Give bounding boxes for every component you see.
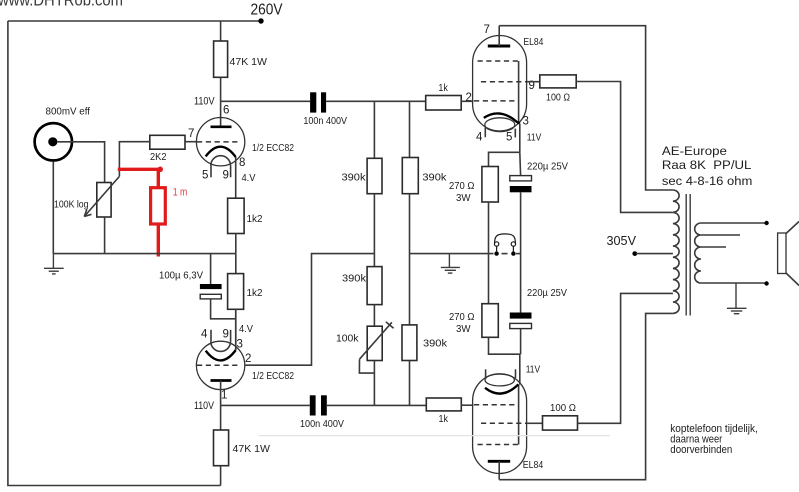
g3 dashes U3 <box>478 60 519 62</box>
svg-text:390k: 390k <box>342 273 367 285</box>
heater pin stubs U1 (pins 5,9) <box>210 166 212 178</box>
svg-text:4: 4 <box>201 329 208 341</box>
wire cap to 1k (bottom) <box>327 404 427 406</box>
g3 to cathode connector <box>518 61 520 123</box>
svg-text:9: 9 <box>223 170 229 182</box>
wire 100Ω to UL tap (top) <box>576 82 673 213</box>
resistor 270Ω 3W (top) <box>482 167 498 203</box>
resistor 390k (right top) <box>402 158 418 194</box>
wire ground bus to 1k2 lower <box>235 254 237 274</box>
wire U2 grid feedback to divider tap <box>245 254 375 366</box>
svg-text:4.V: 4.V <box>242 172 256 184</box>
speaker LS1 <box>778 233 786 274</box>
svg-text:EL84: EL84 <box>523 36 543 48</box>
svg-text:5: 5 <box>202 170 208 182</box>
wire pot bottom to ground bus <box>104 217 106 254</box>
wire grid U1 from 2K2 <box>185 141 196 143</box>
resistor 47K 1W (bottom) <box>220 405 222 430</box>
wire jack hot to pot top <box>57 142 104 183</box>
potentiometer 100K log <box>97 183 111 218</box>
svg-text:3: 3 <box>523 116 529 128</box>
svg-text:1k2: 1k2 <box>247 213 263 225</box>
svg-text:1k2: 1k2 <box>247 287 263 299</box>
wire bottom signal row <box>221 404 310 406</box>
svg-text:100µ 6,3V: 100µ 6,3V <box>159 270 203 282</box>
cathode arc U3 <box>484 113 520 123</box>
resistor 1k2 (upper) <box>228 198 245 233</box>
svg-text:110V: 110V <box>194 400 215 412</box>
heater ellipse U3 <box>485 118 515 132</box>
svg-text:6: 6 <box>223 105 229 117</box>
wiper arrow 100K log <box>84 176 119 216</box>
pin 7 lead <box>498 26 500 46</box>
cathode arc U4 <box>485 384 518 393</box>
resistor 390k (left top) <box>367 158 382 193</box>
svg-text:100 Ω: 100 Ω <box>550 402 576 414</box>
wire cathode join (bottom) <box>489 337 521 354</box>
svg-text:305V: 305V <box>607 233 637 248</box>
wire top 260V rail <box>8 20 261 22</box>
svg-text:7: 7 <box>188 128 194 140</box>
wire red mod: 1M to wiper junction <box>118 168 160 171</box>
resistor 1k (top) <box>426 96 462 111</box>
svg-text:11V: 11V <box>527 132 542 144</box>
wire U4 plate to transformer bottom <box>499 313 673 479</box>
cathode arc U1 <box>206 147 236 157</box>
divider left column wires <box>373 101 375 158</box>
svg-text:sec 4-8-16 ohm: sec 4-8-16 ohm <box>662 174 753 188</box>
cathode lead pin 3 <box>235 309 237 350</box>
svg-text:100k: 100k <box>336 333 359 345</box>
anode bar U2 <box>211 379 232 382</box>
resistor 270Ω 3W (bottom) <box>482 304 498 338</box>
heater ellipse U4 <box>485 374 514 386</box>
wire U3 cathode down <box>519 124 521 153</box>
tube U4 EL84 (bottom, mirrored) <box>473 369 527 479</box>
wire 1k to EL84 grid / label pin 2 <box>461 100 473 102</box>
wire plate junction to coupling cap <box>221 100 311 102</box>
svg-text:1 m: 1 m <box>173 187 188 199</box>
wire pin 6 anode lead <box>220 101 222 127</box>
anode bar U1 <box>211 125 232 128</box>
svg-text:4: 4 <box>476 132 483 144</box>
divider right column wires <box>409 101 411 157</box>
svg-text:1/2 ECC82: 1/2 ECC82 <box>252 370 294 382</box>
g2 dashes U3 <box>481 81 527 83</box>
svg-text:2K2: 2K2 <box>150 151 167 163</box>
resistor 100Ω (bottom) <box>527 422 543 424</box>
wire ground segment with headphone break <box>410 253 494 255</box>
secondary lead 16 ohm <box>701 222 767 224</box>
heater arc U1 <box>211 156 231 166</box>
wire 260V rail to R 47K top <box>220 21 222 41</box>
svg-text:doorverbinden: doorverbinden <box>670 444 732 456</box>
resistor 1k2 (lower) <box>228 274 244 310</box>
resistor 100Ω (top) <box>527 81 540 83</box>
wire jack sleeve to ground bus <box>52 162 54 254</box>
svg-text:270 Ω: 270 Ω <box>449 180 475 192</box>
grid dashes U2 <box>197 364 241 366</box>
heater pin stubs U4 <box>485 369 487 379</box>
wire 1k2 to ground bus <box>235 234 237 254</box>
transformer T1 secondary winding <box>695 223 701 283</box>
g2 dashes U4 <box>481 422 527 424</box>
svg-text:47K 1W: 47K 1W <box>230 56 268 68</box>
wire U3 pin7 to transformer top <box>499 26 673 190</box>
svg-text:220µ 25V: 220µ 25V <box>527 161 568 173</box>
capacitor 100n 400V (bottom) <box>310 395 316 415</box>
svg-text:220µ 25V: 220µ 25V <box>527 287 567 299</box>
svg-text:800mV eff: 800mV eff <box>46 106 91 118</box>
transformer core <box>685 194 687 316</box>
svg-text:www.DHTRob.com: www.DHTRob.com <box>0 0 123 10</box>
wire 305V centre tap <box>636 253 673 255</box>
node 260V supply terminal <box>258 18 263 23</box>
wire 47K to plate junction <box>220 77 222 101</box>
input jack 800mV eff <box>35 123 72 160</box>
svg-text:390k: 390k <box>422 172 447 184</box>
svg-text:2: 2 <box>466 92 472 104</box>
svg-text:390k: 390k <box>342 172 367 184</box>
resistor 390k (left middle) <box>367 267 382 305</box>
svg-text:5: 5 <box>506 132 512 144</box>
svg-text:47K 1W: 47K 1W <box>233 443 271 455</box>
anode bar U4 <box>488 460 510 463</box>
svg-text:EL84: EL84 <box>523 459 544 471</box>
wire cap to 1k grid stopper (top) <box>326 100 426 102</box>
ground (input) <box>44 254 64 274</box>
svg-text:2: 2 <box>245 353 251 365</box>
svg-text:270 Ω: 270 Ω <box>449 311 475 323</box>
wire ground bus <box>53 253 236 255</box>
heater pin stubs U3 <box>484 128 486 138</box>
wire left feedback loop (left edge + bottom) <box>8 21 221 486</box>
tube U2 1/2 ECC82 (bottom triode, mirrored) <box>196 309 244 389</box>
tube U3 EL84 (top) <box>473 26 527 138</box>
resistor 2K2 <box>150 135 185 149</box>
wire 1k2 lower to U2 cathode pin 3 <box>235 309 237 350</box>
transformer T1 primary winding <box>673 190 679 313</box>
heater pin stubs U2 (pins 4,9) <box>210 330 212 342</box>
artifact faint line <box>259 435 610 437</box>
g3 dashes U4 <box>478 444 519 446</box>
svg-text:1: 1 <box>221 390 227 402</box>
svg-text:1k: 1k <box>439 413 449 425</box>
headphone terminals (koptelefoon) <box>494 234 515 252</box>
node speaker - <box>764 281 768 285</box>
wire 2K2 left to wiper junction <box>119 142 149 177</box>
g3 connector U4 <box>518 385 520 445</box>
wiper arrow 100k <box>360 322 394 359</box>
resistor 1k (bottom) <box>426 398 461 411</box>
svg-text:100n 400V: 100n 400V <box>300 418 344 430</box>
tube U1 1/2 ECC82 (top triode) <box>196 118 244 199</box>
grid dashes U1 <box>197 141 241 143</box>
resistor 390k (right bottom) <box>402 325 417 361</box>
svg-text:3W: 3W <box>456 192 471 204</box>
svg-text:100K log: 100K log <box>54 199 89 211</box>
svg-text:Raa 8K PP/UL: Raa 8K PP/UL <box>662 158 752 172</box>
svg-text:260V: 260V <box>251 2 283 19</box>
svg-text:1/2 ECC82: 1/2 ECC82 <box>252 142 294 154</box>
secondary tap 4 ohm <box>701 246 726 248</box>
svg-text:100n 400V: 100n 400V <box>303 115 347 127</box>
svg-text:7: 7 <box>484 24 490 36</box>
svg-text:3W: 3W <box>456 323 471 335</box>
svg-text:AE-Europe: AE-Europe <box>662 144 727 158</box>
cathode arc U2 <box>206 350 236 360</box>
resistor 47K 1W (top) <box>214 41 228 77</box>
svg-text:3: 3 <box>237 339 243 351</box>
capacitor 100n 400V (top) <box>310 92 316 112</box>
node speaker + <box>764 221 768 225</box>
g1 dashes U4 <box>474 404 519 406</box>
secondary tap 8 ohm <box>701 234 740 236</box>
wire 100Ω to UL tap (bottom) <box>578 293 673 423</box>
g1 dashes U3 <box>474 100 519 102</box>
resistor 1m (red) <box>151 188 166 224</box>
anode bar U3 <box>488 45 510 48</box>
wire U2 plate to bottom signal row <box>220 381 222 406</box>
ground (secondary) <box>727 283 747 314</box>
ground (center) <box>441 254 460 274</box>
svg-text:1k: 1k <box>438 82 448 94</box>
cathode lead pin 8 <box>235 157 237 198</box>
svg-text:9: 9 <box>223 329 229 341</box>
heater arc U2 <box>211 342 231 352</box>
wiper hook to bottom <box>359 359 374 373</box>
svg-text:390k: 390k <box>423 338 448 350</box>
svg-text:11V: 11V <box>526 364 541 376</box>
potentiometer 100k <box>367 326 382 360</box>
svg-text:110V: 110V <box>194 95 215 107</box>
pin 7 lead U4 <box>498 461 500 479</box>
svg-text:4.V: 4.V <box>239 323 253 335</box>
secondary lead 0 ohm <box>701 282 767 284</box>
svg-text:100 Ω: 100 Ω <box>546 92 570 104</box>
svg-text:8: 8 <box>239 157 245 169</box>
